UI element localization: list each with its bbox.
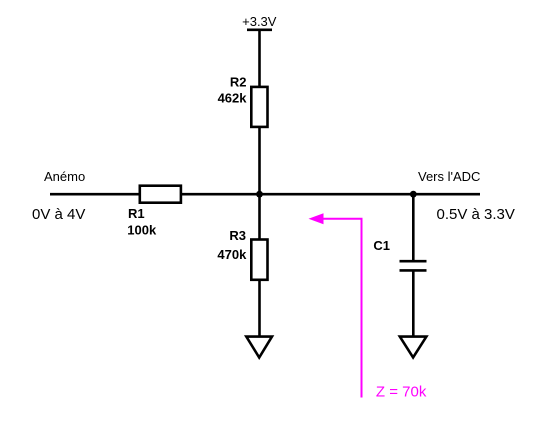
node A junction dot	[256, 191, 263, 198]
capacitor C1 bottom plate	[400, 269, 427, 272]
svg-text:Z = 70k: Z = 70k	[376, 384, 427, 401]
resistor R1	[140, 186, 181, 203]
resistor R2	[251, 87, 267, 127]
svg-text:462k: 462k	[218, 91, 248, 106]
annotation arrowhead	[309, 213, 324, 224]
wire: Anémo input to R1	[50, 193, 141, 196]
svg-text:R2: R2	[230, 74, 247, 89]
ground symbol under C1	[400, 337, 427, 358]
svg-text:0V à 4V: 0V à 4V	[32, 206, 85, 223]
wire: R1 to node A	[181, 193, 260, 196]
svg-text:+3.3V: +3.3V	[242, 14, 277, 29]
annotation arrow line (impedance pointer)	[318, 219, 362, 398]
wire: node B to C1 top plate	[412, 194, 415, 261]
svg-text:470k: 470k	[217, 247, 247, 262]
svg-text:Vers l'ADC: Vers l'ADC	[418, 169, 480, 184]
node B junction dot	[410, 191, 417, 198]
capacitor C1 top plate	[400, 260, 427, 263]
svg-text:R3: R3	[229, 228, 246, 243]
wire: +3.3V rail to R2 top	[258, 30, 261, 88]
svg-text:C1: C1	[373, 238, 390, 253]
wire: node B to ADC output	[413, 193, 480, 196]
wire: C1 bottom plate to ground	[412, 270, 415, 337]
resistor R3	[251, 240, 267, 280]
ground symbol under R3	[246, 337, 272, 358]
svg-text:R1: R1	[128, 206, 145, 221]
svg-text:100k: 100k	[127, 223, 157, 238]
wire: node A to R3 top	[258, 194, 261, 240]
svg-text:0.5V à 3.3V: 0.5V à 3.3V	[437, 206, 515, 223]
svg-text:Anémo: Anémo	[44, 169, 85, 184]
wire: R2 bottom to node A	[258, 127, 261, 195]
wire: R3 bottom to ground	[258, 280, 261, 337]
wire: node A to node B	[260, 193, 414, 196]
power rail bar +3.3V	[247, 28, 272, 31]
